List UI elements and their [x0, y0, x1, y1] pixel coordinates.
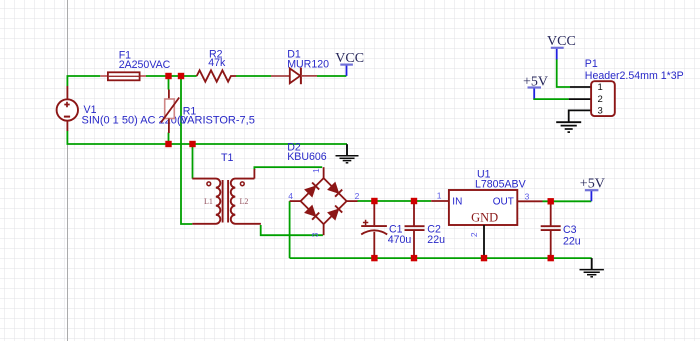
svg-text:IN: IN [452, 197, 462, 208]
junction (C3 top) [548, 198, 554, 204]
wire bridge pin2 to C1/C2/U1 [358, 200, 432, 202]
wire D1 to VCC [317, 75, 346, 77]
label C1 [388, 223, 412, 245]
svg-text:22u: 22u [427, 234, 445, 246]
label C2 [427, 223, 445, 245]
svg-text:VCC: VCC [335, 51, 364, 66]
wire R2 to D1 [236, 75, 271, 77]
svg-text:T1: T1 [221, 152, 233, 164]
svg-text:2: 2 [469, 232, 479, 237]
wire top rail left (V1 to F1) [67, 76, 100, 86]
junction (C1 top) [371, 198, 377, 204]
fuse F1 [100, 72, 146, 80]
svg-text:P1: P1 [585, 58, 598, 70]
junction (R1 bottom / neutral) [165, 141, 171, 147]
wire varistor bottom stub [168, 133, 170, 145]
label U1 [475, 168, 527, 190]
pin 1 (U1) [437, 191, 442, 201]
resistor R2 [197, 70, 236, 81]
regulator U1 [431, 190, 542, 225]
wire bridge pin4 to negative rail [289, 201, 291, 258]
svg-text:L2: L2 [240, 197, 249, 206]
label T1 [221, 152, 233, 164]
svg-text:L7805ABV: L7805ABV [475, 179, 527, 191]
svg-text:Header2.54mm 1*3P: Header2.54mm 1*3P [585, 70, 684, 82]
svg-text:VCC: VCC [547, 34, 576, 49]
svg-text:470u: 470u [388, 234, 412, 246]
voltage source V1 [57, 86, 78, 131]
transformer T1 [192, 169, 261, 224]
wire U1 GND pin (black) [483, 225, 485, 255]
svg-text:2A250VAC: 2A250VAC [119, 59, 171, 71]
wire U1 out to +5V [543, 200, 592, 202]
svg-text:1: 1 [598, 82, 603, 93]
svg-text:3: 3 [525, 192, 530, 202]
wire primary top feed (top rail down to L1 bottom lead) [181, 76, 192, 224]
wire negative rail [290, 257, 592, 259]
wire secondary bottom to bridge pin3 [261, 225, 323, 235]
junction (C3 bottom) [548, 255, 554, 261]
svg-text:2: 2 [355, 191, 360, 201]
pin 3 (U1) [525, 192, 530, 202]
label P1 [585, 58, 684, 82]
header P1 [591, 81, 615, 116]
wire bottom rail (neutral) [67, 131, 347, 145]
svg-text:1: 1 [311, 168, 321, 173]
capacitor C3 [541, 201, 561, 258]
pin 2 (P1) [598, 94, 603, 105]
net flag +5V (output) [580, 177, 605, 202]
pin 3 (P1) [598, 106, 603, 117]
ground (neutral rail) [336, 144, 359, 163]
svg-text:2: 2 [598, 94, 603, 105]
label L2 [240, 197, 249, 206]
wire varistor top stub [168, 76, 170, 90]
wire secondary top to bridge pin1 [254, 167, 322, 170]
junction (C2 top) [411, 198, 417, 204]
svg-text:+5V: +5V [523, 75, 548, 90]
label L1 [204, 197, 213, 206]
junction (top rail / primary feed) [178, 73, 184, 79]
svg-text:1: 1 [437, 191, 442, 201]
capacitor C1 [361, 201, 387, 258]
ground (output rail) [580, 258, 604, 277]
pin 2 (bridge) [355, 191, 360, 201]
svg-text:47k: 47k [208, 57, 226, 69]
diode D1 [271, 68, 317, 85]
net flag VCC (after D1) [335, 51, 364, 76]
junction (C2 bottom) [411, 255, 417, 261]
label D2 [287, 141, 327, 163]
label D1 [287, 48, 329, 70]
wire VCC2 to P1 pin1 [557, 59, 591, 87]
wire top rail (F1 to R2) [146, 75, 197, 77]
svg-text:22u: 22u [563, 235, 581, 247]
pin 3 (bridge) [310, 232, 320, 237]
junction (neutral / primary return) [189, 141, 195, 147]
svg-text:C3: C3 [563, 224, 577, 236]
label C3 [563, 224, 581, 247]
svg-text:OUT: OUT [493, 197, 514, 208]
svg-text:3: 3 [310, 232, 320, 237]
svg-text:(VARISTOR-7,5: (VARISTOR-7,5 [177, 114, 255, 126]
pin 1 (P1) [598, 82, 603, 93]
svg-text:KBU606: KBU606 [287, 151, 327, 163]
pin 1 (bridge) [311, 168, 321, 173]
sheet border line [67, 0, 69, 341]
junction (U1 GND / negative rail) [481, 255, 487, 261]
junction (F1-R1 node) [165, 73, 171, 79]
pin 2 (U1) [469, 232, 479, 237]
label R1 [177, 106, 255, 127]
wire P1 pin3 to ground [569, 110, 591, 121]
label R2 [208, 48, 226, 69]
svg-text:4: 4 [288, 191, 293, 201]
svg-text:MUR120: MUR120 [287, 58, 329, 70]
svg-text:GND: GND [471, 211, 498, 225]
ground (header pin3) [556, 122, 581, 132]
label F1 [119, 49, 171, 71]
svg-text:3: 3 [598, 106, 603, 117]
varistor R1 [161, 90, 179, 134]
junction (C1 bottom) [371, 255, 377, 261]
net flag +5V (header) [523, 75, 548, 99]
label V1 [82, 104, 187, 126]
net flag VCC (header) [547, 34, 576, 59]
wire neutral to L1 top lead [192, 144, 194, 179]
pin 4 (bridge) [288, 191, 293, 201]
capacitor C2 [405, 201, 425, 258]
svg-text:+5V: +5V [580, 177, 605, 192]
wire +5V to P1 pin2 [534, 98, 591, 99]
svg-text:L1: L1 [204, 197, 213, 206]
bridge rectifier D2 [290, 167, 358, 235]
